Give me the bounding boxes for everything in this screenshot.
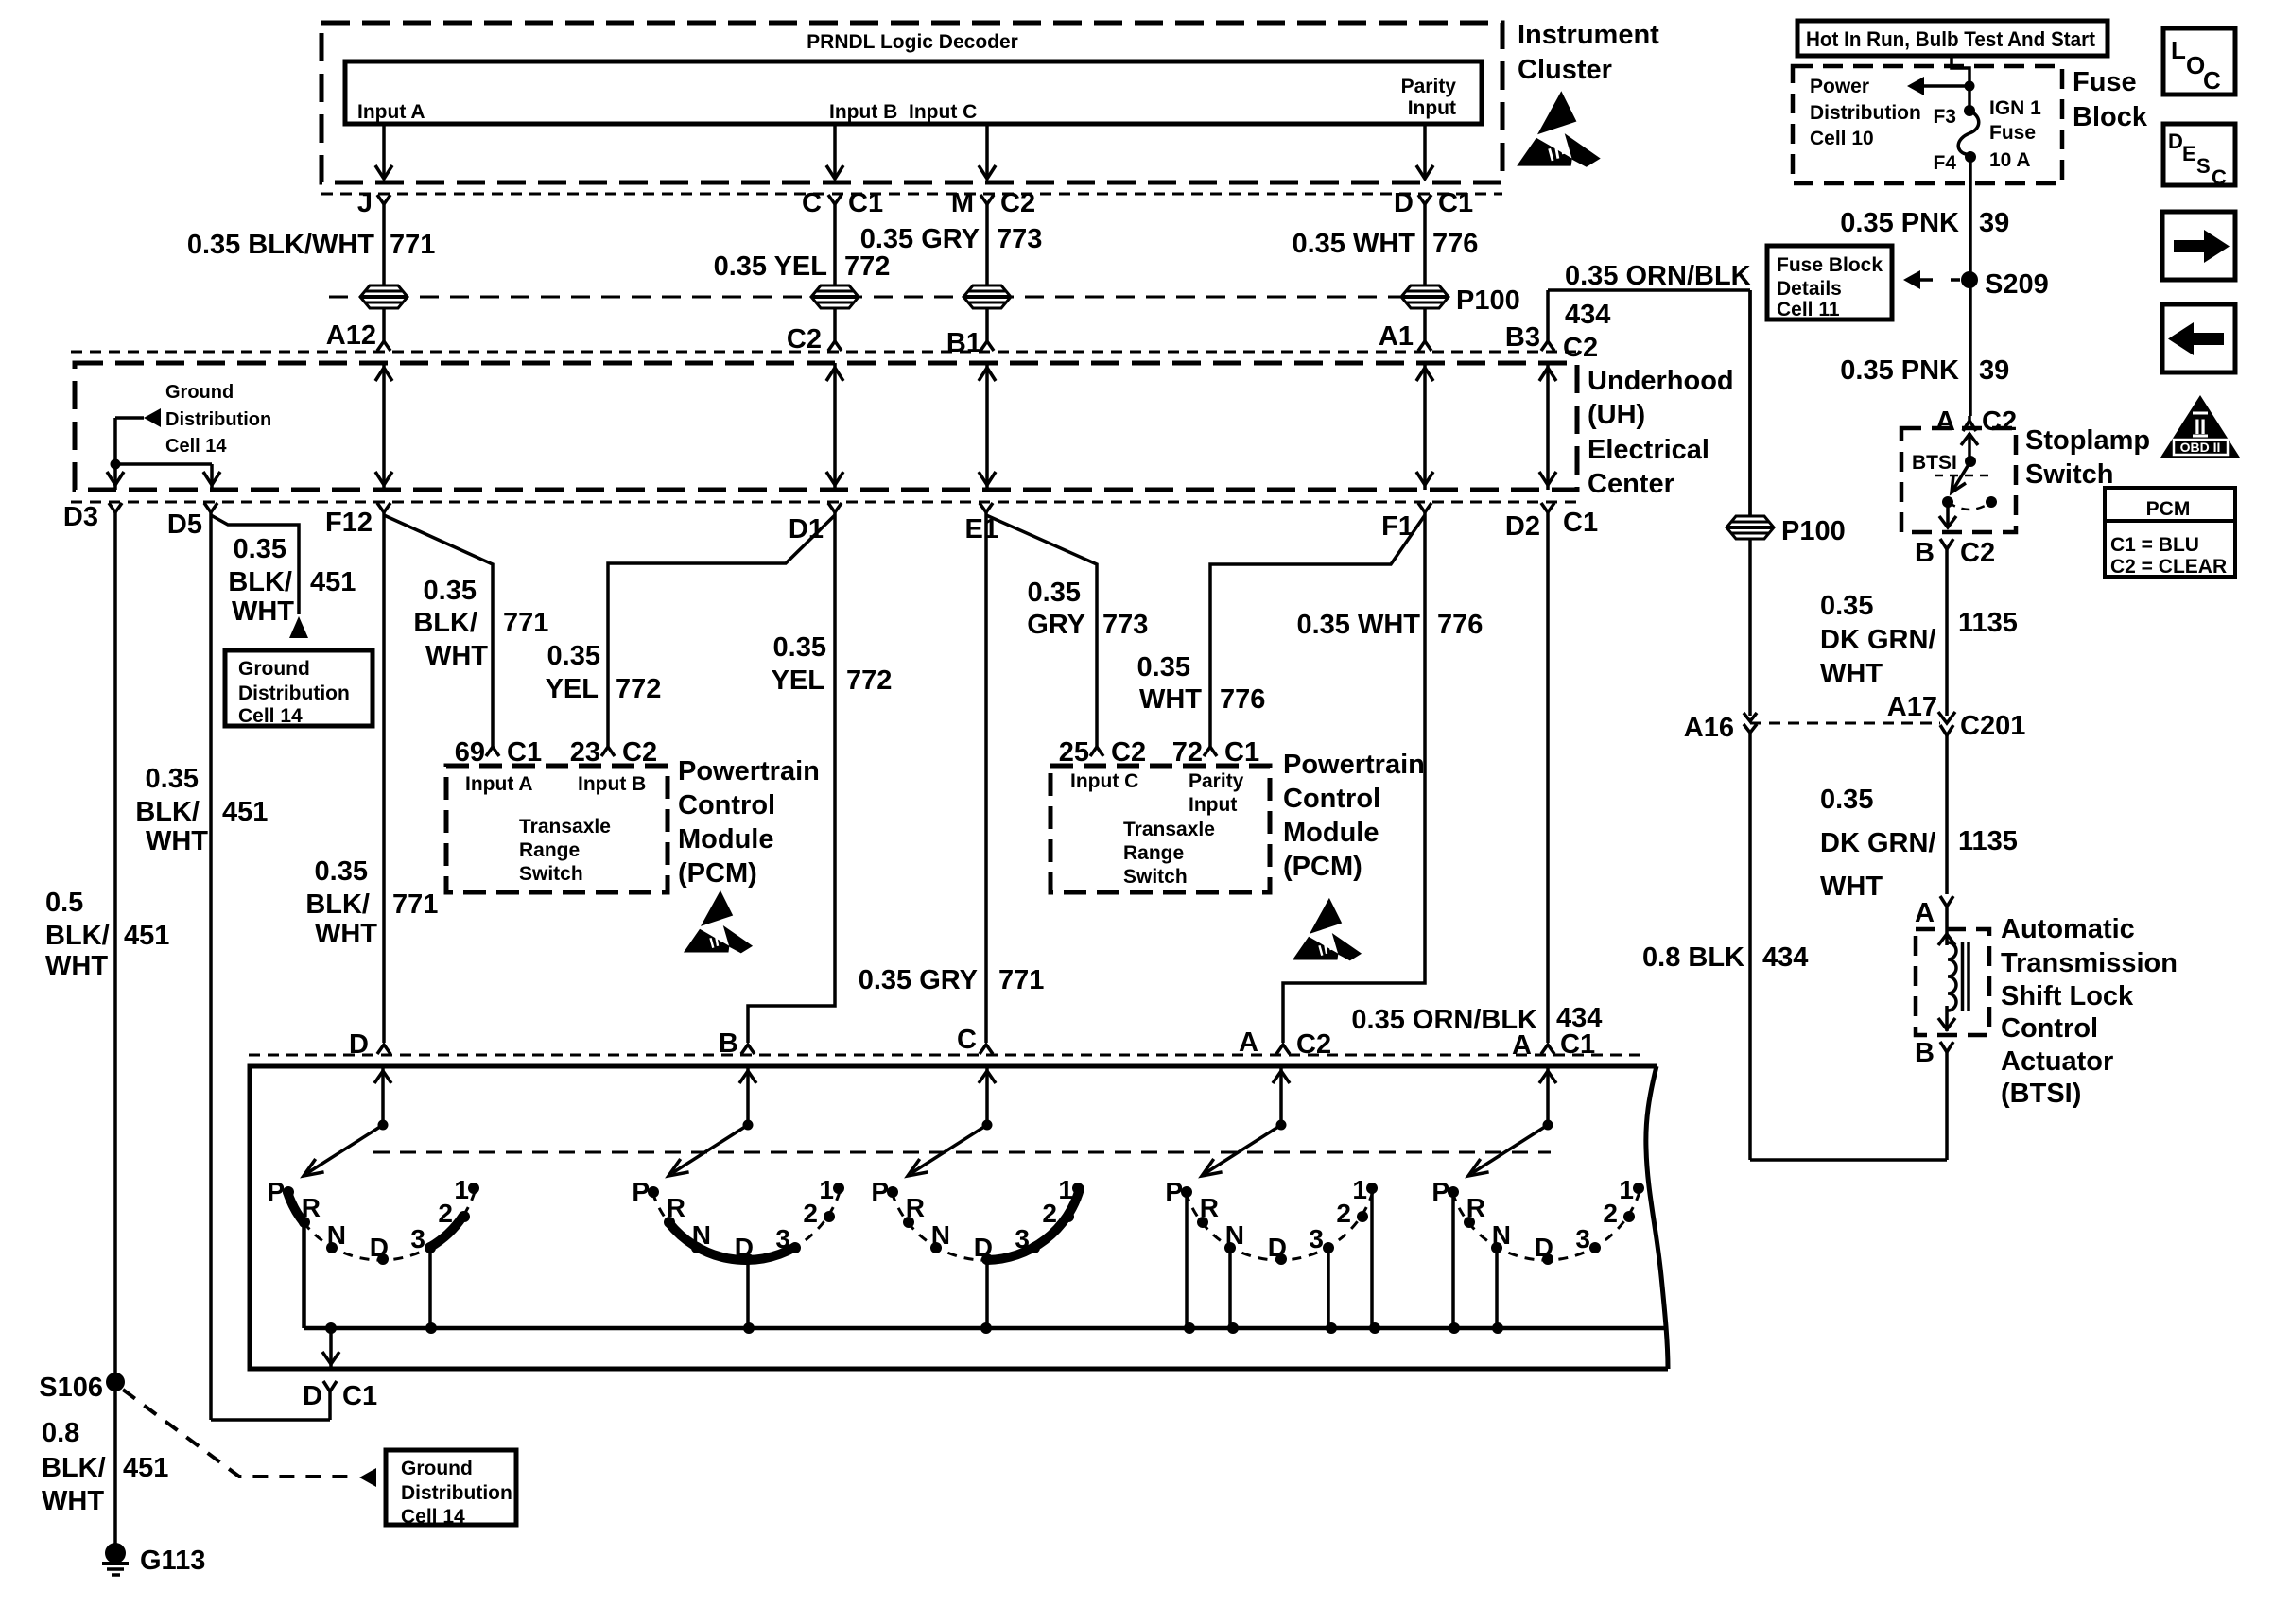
svg-text:D: D: [1394, 188, 1414, 218]
svg-text:Transaxle: Transaxle: [1123, 819, 1215, 840]
wire 773 branch E1 to PCM pin 25: [986, 515, 1097, 747]
svg-text:0.35: 0.35: [547, 641, 600, 671]
range switch wafer 4 output 3 to bus: [1327, 1248, 1330, 1328]
BTSI coil L1: [1945, 907, 1949, 945]
range switch wafer 1 contact R: [299, 1217, 310, 1228]
svg-text:C2 = CLEAR: C2 = CLEAR: [2110, 556, 2227, 578]
transaxle range switch PCM box 2: [1050, 766, 1270, 892]
svg-text:B: B: [719, 1028, 738, 1059]
wire 771 F12 down to D: [382, 512, 386, 1043]
svg-text:(PCM): (PCM): [1283, 852, 1362, 882]
svg-text:Details: Details: [1777, 278, 1842, 300]
wire 0.8 BLK 434: [1748, 733, 1752, 1160]
wire 434 to A16: [1748, 539, 1752, 716]
svg-text:WHT: WHT: [146, 826, 208, 856]
svg-text:451: 451: [222, 797, 268, 827]
svg-text:0.35: 0.35: [146, 764, 199, 794]
svg-text:Cell 14: Cell 14: [165, 436, 227, 457]
ground distribution cell 14 box top: [225, 650, 373, 726]
range switch wafer 1 output R to bus: [303, 1222, 306, 1328]
connector line C1/C2 instrument cluster: [321, 193, 1502, 196]
range switch wafer 1 wiper arrow: [307, 1125, 383, 1173]
range switch wafer 3 contact 3: [1029, 1242, 1040, 1253]
stoplamp switch common: [1968, 433, 1971, 461]
svg-text:C2: C2: [1982, 406, 2017, 437]
svg-text:D5: D5: [167, 510, 202, 540]
transaxle range switch assembly box: [250, 1066, 1668, 1369]
svg-text:0.35 WHT: 0.35 WHT: [1292, 229, 1415, 259]
connector D C1: [1418, 195, 1431, 204]
svg-text:YEL: YEL: [772, 665, 824, 696]
wire ground D3 inside UH: [113, 418, 117, 490]
connector B range switch: [741, 1045, 755, 1054]
connector C201 A17: [1938, 712, 1955, 723]
svg-text:Ground: Ground: [238, 658, 310, 680]
wire 434 ORN/BLK from B3 to right: [1546, 290, 1550, 342]
svg-text:B: B: [1915, 1038, 1935, 1068]
range switch wafer 1 contact P: [283, 1186, 294, 1198]
wire 772 branch D1 to PCM pin 23: [608, 515, 835, 747]
svg-text:N: N: [1492, 1220, 1511, 1250]
range switch wafer 3 pivot: [982, 1120, 993, 1131]
connector A BTSI: [1940, 896, 1953, 907]
range switch wafer 2 contact P: [648, 1186, 659, 1198]
svg-text:0.35 PNK: 0.35 PNK: [1840, 355, 1959, 386]
svg-text:39: 39: [1979, 355, 2009, 386]
range switch wafer 5 contact D: [1542, 1253, 1553, 1265]
wire 773 E1 down to C: [984, 512, 988, 1043]
svg-text:BTSI: BTSI: [1912, 452, 1957, 474]
svg-text:Distribution: Distribution: [1810, 102, 1921, 124]
wire 451 S106 to G113: [113, 1382, 117, 1545]
junction dot ground split: [111, 459, 121, 470]
svg-text:(BTSI): (BTSI): [2001, 1079, 2081, 1109]
svg-text:P: P: [1431, 1177, 1449, 1206]
switch internal dashed line: [373, 1151, 1551, 1154]
svg-text:C2: C2: [1960, 538, 1995, 568]
icon arrow left box: [2162, 304, 2235, 372]
svg-text:C1: C1: [1560, 1029, 1595, 1060]
svg-text:WHT: WHT: [232, 596, 294, 627]
wire 451 D5 down: [209, 512, 213, 1420]
svg-text:0.35: 0.35: [424, 576, 477, 606]
svg-text:Fuse Block: Fuse Block: [1777, 254, 1883, 276]
stoplamp alternate throw arc: [1948, 502, 1991, 510]
range switch wafer 3 contact R: [903, 1217, 914, 1228]
stoplamp contact left: [1942, 496, 1953, 508]
svg-text:S106: S106: [39, 1373, 103, 1403]
svg-text:Parity: Parity: [1401, 76, 1457, 97]
svg-text:DK GRN/: DK GRN/: [1820, 625, 1935, 655]
grommet P100 wire 776: [1401, 285, 1449, 308]
connector A C2 range switch: [1276, 1045, 1290, 1054]
instrument cluster dashed box: [321, 23, 1502, 182]
svg-text:0.35: 0.35: [234, 534, 286, 564]
connector pin 25 C2: [1090, 747, 1103, 756]
svg-text:1: 1: [819, 1175, 834, 1204]
svg-text:771: 771: [503, 608, 548, 638]
svg-text:R: R: [1200, 1193, 1219, 1222]
range switch wafer 1 output 3 to bus: [428, 1248, 432, 1328]
range switch wafer 4 contact R: [1197, 1217, 1208, 1228]
svg-text:0.5: 0.5: [45, 888, 83, 918]
svg-text:D2: D2: [1505, 511, 1540, 542]
ground distribution cell 14 reference arrow: [115, 416, 144, 420]
icon DESC box: [2163, 124, 2235, 185]
range switch wafer 3 contact 1: [1072, 1183, 1084, 1194]
range switch wafer 4 feed: [1279, 1065, 1283, 1125]
connector A12 fork: [377, 341, 390, 351]
range switch wafer 2 contact arc: [652, 1189, 841, 1260]
stoplamp contact right: [1986, 496, 1997, 508]
svg-text:434: 434: [1762, 942, 1808, 973]
svg-text:69: 69: [455, 737, 485, 768]
range switch wafer 3 contact D: [981, 1253, 993, 1265]
svg-text:1: 1: [454, 1175, 469, 1204]
svg-text:L: L: [2171, 36, 2186, 64]
range switch wafer 5 output P to bus: [1451, 1192, 1455, 1328]
wire D5 to D C1 connector: [211, 1418, 330, 1422]
range switch wafer 1 contact arc: [287, 1189, 476, 1260]
svg-text:C1: C1: [1438, 188, 1473, 218]
range switch wafer 5 contact N: [1491, 1242, 1502, 1253]
svg-text:0.35 BLK/WHT: 0.35 BLK/WHT: [187, 230, 374, 260]
svg-text:Input B: Input B: [829, 101, 897, 123]
PCM connector legend box: [2105, 488, 2235, 577]
icon arrow right box: [2162, 212, 2235, 280]
connector J: [377, 195, 390, 204]
range switch wafer 4 contact 1: [1366, 1183, 1378, 1194]
svg-text:1135: 1135: [1958, 608, 2018, 638]
connector A1 fork: [1418, 341, 1431, 351]
wire ground D5 inside UH: [115, 462, 212, 466]
range switch wafer 4 output 1 to bus: [1370, 1188, 1374, 1328]
svg-text:OBD II: OBD II: [2180, 440, 2221, 455]
connector pin 72 C1: [1204, 747, 1217, 756]
svg-text:N: N: [692, 1220, 711, 1250]
range switch wafer 5 wiper arrow: [1472, 1125, 1548, 1173]
connector C C1: [828, 195, 842, 204]
svg-text:Shift Lock: Shift Lock: [2001, 981, 2134, 1011]
range switch wafer 2 output D to bus: [746, 1259, 750, 1328]
svg-text:0.35: 0.35: [1820, 591, 1873, 621]
svg-text:Fuse: Fuse: [2073, 67, 2137, 97]
svg-text:Underhood: Underhood: [1588, 366, 1734, 396]
svg-text:C2: C2: [1000, 188, 1035, 218]
connector E1: [980, 503, 993, 512]
range switch wafer 5 output N to bus: [1495, 1248, 1499, 1328]
power distribution reference arrow: [1924, 84, 1969, 88]
range switch wafer 1 contact 1: [468, 1183, 479, 1194]
svg-text:WHT: WHT: [45, 951, 108, 981]
connector B BTSI: [1940, 1042, 1953, 1052]
range switch wafer 5 contact R: [1464, 1217, 1475, 1228]
grommet P100 wire 771: [360, 285, 408, 308]
svg-text:Distribution: Distribution: [238, 682, 350, 704]
svg-text:P100: P100: [1781, 516, 1846, 546]
icon OBD II triangle: [2160, 395, 2240, 458]
svg-text:C2: C2: [622, 737, 657, 768]
svg-text:Module: Module: [1283, 818, 1379, 848]
range switch wafer 4 contact D: [1275, 1253, 1287, 1265]
svg-text:1: 1: [1619, 1175, 1634, 1204]
svg-text:Distribution: Distribution: [165, 409, 271, 430]
svg-text:P100: P100: [1456, 285, 1520, 316]
wire 776 F1 down to A C2: [1283, 512, 1425, 1043]
range switch wafer 2 contact N: [691, 1242, 703, 1253]
svg-text:Cluster: Cluster: [1518, 55, 1612, 85]
wire 771 segment J to A12: [382, 203, 386, 342]
wire through UH center 2: [833, 363, 837, 490]
wire through UH center 1: [382, 363, 386, 490]
svg-text:A: A: [1239, 1028, 1258, 1058]
svg-text:PRNDL Logic Decoder: PRNDL Logic Decoder: [807, 31, 1018, 53]
svg-text:0.35 GRY: 0.35 GRY: [860, 224, 980, 254]
range switch wafer 4 contact arc: [1186, 1189, 1374, 1260]
connector D range switch: [377, 1045, 390, 1054]
connector D2 C1: [1541, 503, 1554, 512]
svg-text:Cell 11: Cell 11: [1777, 299, 1840, 320]
svg-text:A: A: [1915, 898, 1935, 928]
connector F1: [1418, 503, 1431, 512]
svg-text:Ground: Ground: [401, 1458, 473, 1479]
range switch wafer 4 output N to bus: [1228, 1248, 1232, 1328]
svg-text:2: 2: [1603, 1199, 1618, 1228]
svg-text:C: C: [802, 188, 822, 218]
range switch wafer 1 closed segment P-R: [287, 1192, 304, 1222]
svg-text:39: 39: [1979, 208, 2009, 238]
connector D5: [204, 503, 217, 512]
range switch wafer 3 contact P: [887, 1186, 898, 1198]
svg-text:BLK/: BLK/: [135, 797, 200, 827]
svg-text:A17: A17: [1887, 692, 1937, 722]
connector A C1 range switch: [1541, 1045, 1554, 1054]
range switch wafer 5 contact 3: [1589, 1242, 1601, 1253]
svg-text:PCM: PCM: [2146, 498, 2191, 520]
svg-text:3: 3: [775, 1224, 790, 1253]
range switch wafer 4 contact 2: [1357, 1211, 1368, 1222]
wire feed from hot box: [1952, 56, 1969, 111]
svg-text:Electrical: Electrical: [1588, 435, 1709, 465]
underhood electrical center dashed box: [75, 363, 1577, 490]
range switch wafer 3 closed segment D-1: [987, 1189, 1080, 1260]
range switch wafer 5 feed: [1546, 1065, 1550, 1125]
svg-text:D: D: [349, 1029, 369, 1060]
svg-text:772: 772: [846, 665, 892, 696]
arrow into ground distribution box: [289, 616, 308, 638]
svg-text:R: R: [906, 1193, 925, 1222]
svg-text:Distribution: Distribution: [401, 1482, 512, 1504]
svg-text:B3: B3: [1505, 322, 1540, 353]
connector B1 fork: [980, 341, 994, 351]
svg-text:0.35 YEL: 0.35 YEL: [714, 251, 827, 282]
svg-text:25: 25: [1059, 737, 1089, 768]
BTSI coil core: [1961, 942, 1965, 1011]
range switch wafer 1 contact 2: [459, 1211, 470, 1222]
svg-text:N: N: [327, 1220, 346, 1250]
svg-text:WHT: WHT: [1820, 659, 1883, 689]
range switch wafer 4 pivot: [1276, 1120, 1287, 1131]
svg-text:Control: Control: [1283, 784, 1380, 814]
wire 39 PNK fuse to stoplamp: [1969, 157, 1972, 416]
svg-text:BLK/: BLK/: [228, 567, 292, 597]
svg-text:Input B: Input B: [578, 773, 646, 795]
stoplamp switch dashed box: [1901, 428, 2016, 532]
range switch wafer 2 closed segment R-3: [668, 1223, 794, 1261]
BTSI coil output: [1945, 1006, 1949, 1031]
grommet P100 wire 773: [963, 285, 1011, 308]
range switch wafer 3 wiper arrow: [911, 1125, 987, 1173]
svg-text:S209: S209: [1985, 269, 2049, 300]
svg-text:0.8: 0.8: [42, 1418, 79, 1448]
wire 434 D2 down to A C1: [1546, 512, 1550, 1043]
connector D3: [109, 503, 122, 512]
svg-text:C1 = BLU: C1 = BLU: [2110, 534, 2199, 556]
transaxle range switch PCM box 1: [446, 766, 668, 892]
range switch wafer 4 output P to bus: [1185, 1192, 1189, 1328]
svg-text:Parity: Parity: [1189, 770, 1244, 792]
splice S106: [106, 1373, 125, 1391]
svg-text:Range: Range: [519, 839, 580, 861]
bus junction dots: [325, 1322, 337, 1334]
svg-text:Input C: Input C: [909, 101, 977, 123]
svg-text:N: N: [1225, 1220, 1244, 1250]
range switch wafer 3 contact 2: [1063, 1211, 1074, 1222]
svg-text:E: E: [2182, 142, 2196, 165]
dashed reference S106 to ground distribution cell 14: [123, 1390, 352, 1477]
svg-text:451: 451: [310, 567, 356, 597]
wire through UH center 3: [985, 363, 989, 490]
wire decoder output 4: [1423, 124, 1427, 179]
range switch wafer 2 contact 3: [789, 1242, 801, 1253]
svg-text:1: 1: [1058, 1175, 1073, 1204]
connector pin 69 C1: [486, 747, 499, 756]
fuse block details reference arrow: [1951, 278, 1960, 282]
svg-text:0.35: 0.35: [315, 856, 368, 887]
svg-text:Instrument: Instrument: [1518, 20, 1659, 50]
stoplamp output to B: [1946, 502, 1950, 527]
svg-text:Block: Block: [2073, 102, 2148, 132]
svg-text:Cell 14: Cell 14: [401, 1506, 465, 1528]
svg-text:C2: C2: [1563, 333, 1598, 363]
svg-text:D: D: [303, 1381, 322, 1411]
range switch wafer 2 wiper arrow: [672, 1125, 748, 1173]
fuse IGN 1 10A: [1958, 111, 1979, 157]
svg-text:Control: Control: [2001, 1013, 2098, 1044]
svg-text:Switch: Switch: [2025, 459, 2113, 490]
connector pin 23 C2: [601, 747, 615, 756]
svg-text:P: P: [632, 1177, 650, 1206]
svg-text:2: 2: [438, 1199, 453, 1228]
svg-text:R: R: [302, 1193, 321, 1222]
svg-text:D: D: [370, 1233, 389, 1262]
svg-text:C201: C201: [1960, 711, 2025, 741]
range switch wafer 2 pivot: [743, 1120, 754, 1131]
svg-text:D: D: [1268, 1233, 1287, 1262]
connector B C2 stoplamp: [1940, 539, 1953, 549]
range switch wafer 5 contact 1: [1633, 1183, 1644, 1194]
connector line C201: [1750, 722, 1940, 725]
connector line range switch: [249, 1054, 1645, 1057]
wire 776 branch F1 to PCM pin 72: [1210, 515, 1425, 747]
svg-text:C1: C1: [1224, 737, 1259, 768]
svg-text:Cell 14: Cell 14: [238, 705, 303, 727]
grommet P100 right: [1726, 516, 1774, 539]
svg-text:WHT: WHT: [315, 919, 377, 949]
svg-text:WHT: WHT: [1139, 684, 1202, 715]
svg-text:1: 1: [1352, 1175, 1367, 1204]
svg-text:773: 773: [997, 224, 1042, 254]
svg-text:P: P: [1165, 1177, 1183, 1206]
svg-text:0.35: 0.35: [773, 632, 826, 663]
svg-text:451: 451: [123, 1453, 168, 1483]
svg-text:771: 771: [998, 965, 1044, 995]
svg-text:C: C: [957, 1025, 977, 1055]
svg-text:DK GRN/: DK GRN/: [1820, 828, 1935, 858]
range switch wafer 1 feed: [381, 1065, 385, 1125]
range switch wafer 2 contact D: [742, 1253, 754, 1265]
wire 1135 DK GRN/WHT to C201: [1945, 549, 1949, 716]
fuse F4 terminal: [1965, 151, 1976, 163]
ESD symbol PCM 2: [1293, 898, 1362, 961]
svg-text:D: D: [974, 1233, 993, 1262]
svg-text:C2: C2: [1111, 737, 1146, 768]
range switch wafer 3 contact N: [930, 1242, 942, 1253]
svg-text:0.35 ORN/BLK: 0.35 ORN/BLK: [1565, 261, 1751, 291]
svg-text:A16: A16: [1684, 713, 1734, 743]
svg-text:WHT: WHT: [42, 1486, 104, 1516]
svg-text:A1: A1: [1379, 321, 1414, 352]
connector line UH top: [71, 351, 1577, 354]
svg-text:J: J: [357, 188, 373, 218]
svg-text:(PCM): (PCM): [678, 858, 757, 889]
svg-text:A: A: [1512, 1030, 1532, 1061]
svg-text:D3: D3: [63, 502, 98, 532]
svg-text:776: 776: [1437, 610, 1483, 640]
svg-text:BLK/: BLK/: [413, 608, 477, 638]
svg-text:451: 451: [124, 921, 169, 951]
svg-text:2: 2: [1042, 1199, 1057, 1228]
grommet line P100: [329, 296, 1445, 299]
wire through UH center 4: [1423, 363, 1427, 490]
connector F12: [377, 503, 390, 512]
wire 776 segment D to A1: [1423, 203, 1427, 342]
svg-text:N: N: [931, 1220, 950, 1250]
ESD symbol PCM 1: [684, 890, 753, 954]
icon LOC box: [2163, 28, 2235, 95]
svg-text:3: 3: [1309, 1224, 1324, 1253]
range switch wafer 2 contact 1: [833, 1183, 844, 1194]
svg-text:C: C: [2203, 66, 2221, 95]
svg-text:0.35: 0.35: [1137, 652, 1190, 682]
label Hot In Run Bulb Test And Start: [1797, 21, 2108, 56]
svg-text:F4: F4: [1933, 152, 1956, 174]
svg-text:C2: C2: [1296, 1029, 1331, 1060]
svg-text:0.8 BLK: 0.8 BLK: [1642, 942, 1744, 973]
svg-text:IGN 1: IGN 1: [1989, 97, 2041, 119]
svg-text:A12: A12: [326, 320, 376, 351]
svg-text:Control: Control: [678, 790, 775, 821]
range switch wafer 1 contact 3: [425, 1242, 436, 1253]
range switch common bus: [304, 1326, 1666, 1331]
svg-text:Actuator: Actuator: [2001, 1046, 2113, 1077]
connector C2 fork: [828, 341, 842, 351]
range switch wafer 4 contact P: [1181, 1186, 1192, 1198]
svg-text:771: 771: [392, 890, 438, 920]
svg-text:Automatic: Automatic: [2001, 914, 2135, 944]
bus riser from R wafer1: [302, 1222, 305, 1328]
wire 434 ORN/BLK right vertical: [1748, 290, 1752, 516]
